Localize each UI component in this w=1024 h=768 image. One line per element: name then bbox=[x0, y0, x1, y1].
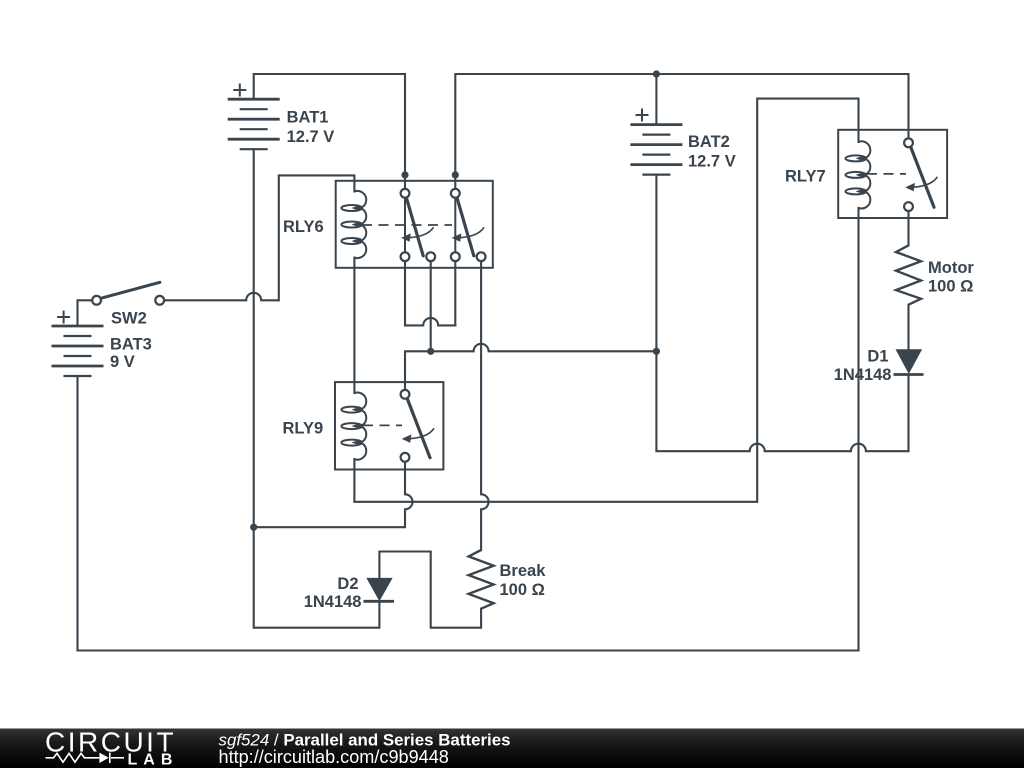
svg-text:1N4148: 1N4148 bbox=[304, 593, 362, 611]
svg-text:RLY7: RLY7 bbox=[785, 168, 826, 186]
svg-text:12.7 V: 12.7 V bbox=[287, 128, 335, 146]
svg-text:RLY6: RLY6 bbox=[283, 218, 324, 236]
svg-text:9 V: 9 V bbox=[110, 353, 135, 371]
svg-text:1N4148: 1N4148 bbox=[834, 366, 892, 384]
svg-text:http://circuitlab.com/c9b9448: http://circuitlab.com/c9b9448 bbox=[219, 747, 449, 767]
svg-text:BAT3: BAT3 bbox=[110, 335, 152, 353]
svg-text:100 Ω: 100 Ω bbox=[928, 278, 973, 296]
svg-text:BAT1: BAT1 bbox=[287, 108, 329, 126]
svg-text:LAB: LAB bbox=[128, 752, 179, 768]
svg-text:12.7 V: 12.7 V bbox=[688, 153, 736, 171]
svg-text:BAT2: BAT2 bbox=[688, 133, 730, 151]
svg-text:RLY9: RLY9 bbox=[283, 419, 324, 437]
svg-text:D1: D1 bbox=[867, 348, 888, 366]
svg-text:Motor: Motor bbox=[928, 259, 974, 277]
svg-text:100 Ω: 100 Ω bbox=[500, 581, 545, 599]
svg-text:SW2: SW2 bbox=[111, 309, 147, 327]
svg-text:Break: Break bbox=[500, 562, 547, 580]
svg-text:D2: D2 bbox=[337, 575, 358, 593]
